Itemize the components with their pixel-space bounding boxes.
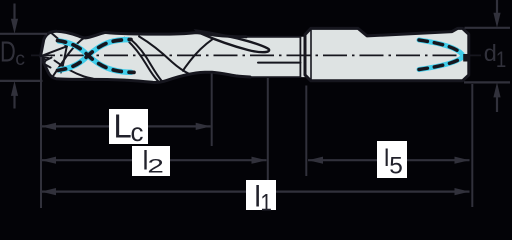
svg-text:1: 1 xyxy=(496,47,506,72)
svg-text:L: L xyxy=(113,107,131,144)
svg-text:D: D xyxy=(0,37,16,69)
svg-text:d: d xyxy=(484,40,497,66)
svg-text:2: 2 xyxy=(147,156,164,178)
svg-text:1: 1 xyxy=(260,190,272,217)
svg-text:c: c xyxy=(131,117,144,147)
svg-text:5: 5 xyxy=(389,153,403,180)
svg-text:c: c xyxy=(15,48,25,70)
